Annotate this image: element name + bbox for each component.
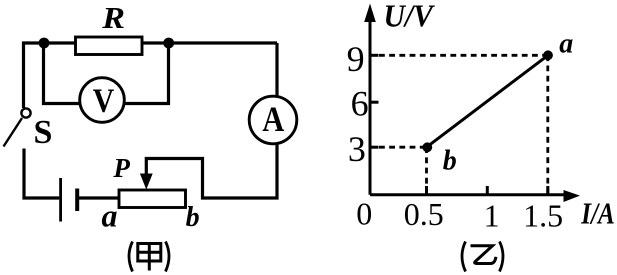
svg-text:R: R [101,2,125,36]
svg-text:S: S [33,114,52,151]
svg-text:V: V [93,82,115,119]
svg-text:P: P [112,153,130,183]
svg-text:1.5: 1.5 [523,198,563,234]
svg-text:b: b [443,146,457,177]
svg-text:1: 1 [484,198,500,234]
svg-text:a: a [102,197,118,233]
svg-text:0: 0 [356,196,372,232]
svg-text:9: 9 [347,39,365,79]
svg-text:0.5: 0.5 [404,196,444,232]
svg-text:U/V: U/V [384,0,436,34]
svg-text:3: 3 [348,129,366,169]
svg-text:6: 6 [351,84,369,124]
svg-text:a: a [559,29,573,60]
svg-text:A: A [262,99,284,139]
svg-text:I/A: I/A [580,196,614,231]
svg-text:b: b [186,202,200,233]
